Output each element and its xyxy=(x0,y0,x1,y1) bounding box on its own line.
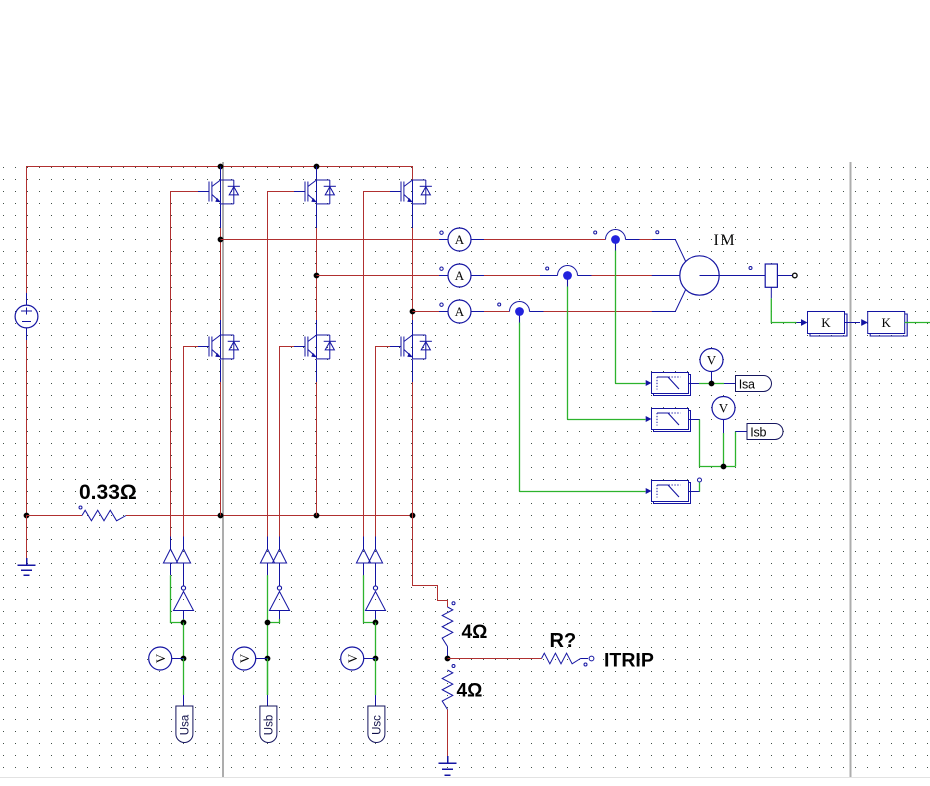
wire: phase c current signal xyxy=(519,323,521,492)
wire: phase b leg midpoint xyxy=(316,228,318,320)
svg-text:4Ω: 4Ω xyxy=(457,681,483,702)
wire: phase a to ammeter xyxy=(221,239,440,241)
wire: buffer input to chain xyxy=(171,575,184,622)
svg-text:Usa: Usa xyxy=(180,714,192,735)
wire: leg b to -bus xyxy=(316,382,318,516)
node: -bus corner xyxy=(24,513,30,519)
net label Isa xyxy=(736,376,772,392)
wire: leg c to -bus xyxy=(412,382,414,516)
wire: probe stub xyxy=(626,239,640,241)
svg-text:0.33Ω: 0.33Ω xyxy=(79,481,137,504)
node: divider tap xyxy=(445,656,451,662)
wire: arrow lead xyxy=(797,322,802,324)
inverter bubble xyxy=(373,586,377,590)
wire: ammeter A2 to probe xyxy=(484,275,540,277)
wire: buffer output stub xyxy=(170,537,172,550)
wire: positive DC rail xyxy=(27,167,413,294)
wire: gate drive 4 xyxy=(280,347,294,537)
svg-text:Usb: Usb xyxy=(264,715,276,735)
node: -bus / leg A emitter xyxy=(218,513,224,519)
node: source tap xyxy=(373,656,379,662)
node: +bus / leg B collector xyxy=(314,164,320,170)
wire: NOT input to chain xyxy=(268,619,280,623)
wire: NOT input xyxy=(375,619,377,623)
ammeter A1 xyxy=(439,228,484,251)
wire: into Isb tag xyxy=(736,431,748,433)
wire: -bus segment xyxy=(27,515,83,517)
wire: Q2 collector lead xyxy=(220,320,222,336)
wire: NOT input stub xyxy=(279,611,281,620)
gate buffer U6 (inverting pair top) xyxy=(368,549,382,563)
page boundary line (vertical right) xyxy=(850,162,852,777)
terminal of R1 xyxy=(79,506,82,509)
current probe node a (hop arc + blue dot) xyxy=(606,230,626,251)
wire: negative DC rail xyxy=(126,515,413,517)
svg-text:Isa: Isa xyxy=(739,377,755,391)
wire: buffer output stub xyxy=(267,537,269,550)
wire: FLT3 output stub xyxy=(689,491,700,493)
motor terminal a marker xyxy=(656,231,659,234)
wire: speed signal xyxy=(771,298,796,322)
wire: to source tag xyxy=(375,659,377,696)
node: -bus / leg B emitter xyxy=(314,513,320,519)
wire: R3 to ground xyxy=(447,710,449,758)
gate buffer U2 (inverting pair top) xyxy=(176,549,190,563)
wire: Q4 collector lead xyxy=(316,320,318,336)
wire: VM2 to Isb net xyxy=(723,433,725,467)
svg-text:V: V xyxy=(345,653,360,663)
wire: FLT3 open output xyxy=(699,483,701,492)
wire: Q5 emitter lead xyxy=(412,204,414,228)
voltmeter VMg3 xyxy=(341,647,376,670)
voltmeter VM2 xyxy=(712,397,735,434)
source tag Usb xyxy=(260,706,277,743)
node: +bus / leg A collector xyxy=(218,164,224,170)
wire: into filter FLT3 xyxy=(520,491,646,493)
transistor Q6 (IGBT with antiparallel diode) xyxy=(390,335,432,359)
wire: probe stub xyxy=(530,311,544,313)
induction motor IM xyxy=(652,240,756,312)
wire: ammeter A1 to probe xyxy=(484,239,606,241)
wire: Q2 emitter lead xyxy=(220,359,222,382)
wire: into Isa tag xyxy=(724,383,736,385)
wire: -bus to divider xyxy=(413,516,448,608)
svg-text:K: K xyxy=(882,315,892,330)
wire: NOT output stub xyxy=(279,563,281,586)
wire: K1 to K2 xyxy=(845,322,861,324)
resistor R4 R? xyxy=(542,653,581,664)
svg-text:R?: R? xyxy=(550,630,577,652)
terminal marker at probe xyxy=(546,267,549,270)
svg-text:V: V xyxy=(237,653,252,663)
wire: gate drive 2 xyxy=(184,347,198,537)
wire: tap to Rtrip xyxy=(448,658,542,660)
inverter bubble xyxy=(181,586,185,590)
gate buffer U4 (inverting pair top) xyxy=(272,549,286,563)
arrowhead into K2 xyxy=(862,320,868,326)
node: phase c output xyxy=(410,309,416,315)
wire: buffer input stub xyxy=(170,563,172,575)
page boundary line (vertical left) xyxy=(222,162,224,777)
wire: tag stub xyxy=(183,695,185,706)
wire: gate drive 1 xyxy=(171,192,198,537)
wire: phase c leg midpoint xyxy=(412,228,414,320)
low-pass filter block FLT2 xyxy=(646,409,691,432)
node: phase a output xyxy=(218,237,224,243)
wire: Isb net rise xyxy=(735,432,737,467)
wire: NOT input stub xyxy=(375,611,377,620)
terminal of R2 xyxy=(452,602,455,605)
resistor R3 4ohm xyxy=(442,670,453,710)
source tag Usc xyxy=(368,706,385,743)
open terminal ITRIP xyxy=(589,656,594,661)
node: source tap xyxy=(181,656,187,662)
page boundary line (bottom) xyxy=(0,777,930,779)
wire: probe to motor terminal c xyxy=(544,311,652,313)
wire: leg a collector lead xyxy=(220,167,222,181)
wire: phase c to ammeter xyxy=(413,311,440,313)
terminal marker at probe xyxy=(594,231,597,234)
node: gate signal xyxy=(373,620,379,626)
terminal of R4 xyxy=(584,663,587,666)
wire: buffer output stub xyxy=(279,537,281,550)
node: phase b output xyxy=(314,273,320,279)
net label Isb xyxy=(747,424,783,440)
wire: buffer input chain xyxy=(267,575,269,695)
svg-text:Usc: Usc xyxy=(372,715,384,735)
logic inverter N1 xyxy=(174,592,194,611)
svg-text:A: A xyxy=(455,268,465,283)
gain block K1 xyxy=(801,312,847,337)
wire: Q6 collector lead xyxy=(412,320,414,336)
svg-text:Isb: Isb xyxy=(750,425,766,439)
wire: Q1 emitter lead xyxy=(220,204,222,228)
transistor Q4 (IGBT with antiparallel diode) xyxy=(294,335,336,359)
voltmeter VMg2 xyxy=(233,647,268,670)
resistor R1 0.33ohm xyxy=(82,510,126,521)
wire: buffer input stub xyxy=(267,563,269,575)
wire: gate drive 5 xyxy=(364,192,390,537)
wire: probe lead-in xyxy=(540,275,558,277)
wire: into filter FLT2 xyxy=(568,419,646,421)
inverter bubble xyxy=(277,586,281,590)
ammeter A2 xyxy=(439,264,484,287)
wire: Isa net xyxy=(699,383,724,385)
svg-text:A: A xyxy=(455,304,465,319)
wire: buffer input stub xyxy=(363,563,365,575)
gate buffer U1 xyxy=(163,549,177,563)
wire: buffer output stub xyxy=(183,537,185,550)
wire: R2 to tap xyxy=(447,647,449,659)
open terminal FLT3 xyxy=(698,478,702,482)
wire: chain down xyxy=(183,623,185,659)
wire: phase a leg midpoint xyxy=(220,228,222,320)
wire: source negative to bottom rail xyxy=(26,340,28,516)
svg-text:K: K xyxy=(821,315,831,330)
wire: into filter FLT1 xyxy=(616,383,646,385)
node: source tap xyxy=(265,656,271,662)
wire: Q4 emitter lead xyxy=(316,359,318,382)
wire: NOT input stub xyxy=(183,611,185,620)
wire: Q3 emitter lead xyxy=(316,204,318,228)
wire: phase b current signal xyxy=(567,287,569,420)
dc voltage source V1 xyxy=(15,293,38,340)
gate buffer U5 xyxy=(356,549,370,563)
node: gate signal xyxy=(265,620,271,626)
logic inverter N3 xyxy=(366,592,386,611)
low-pass filter block FLT3 xyxy=(646,481,691,504)
svg-text:V: V xyxy=(153,653,168,663)
wire: probe to motor terminal b xyxy=(592,275,652,277)
wire: NOT input xyxy=(183,619,185,623)
gain block K2 xyxy=(861,312,907,337)
node: -bus / divider tap xyxy=(410,513,416,519)
wire: Isb net run xyxy=(700,420,736,467)
open output terminal xyxy=(793,273,798,278)
ammeter A3 xyxy=(439,300,484,323)
wire: chain down xyxy=(375,623,377,659)
source tag Usa xyxy=(176,706,193,743)
current probe node c (hop arc + blue dot) xyxy=(510,302,530,323)
wire: tag stub xyxy=(267,695,269,706)
node: Isb xyxy=(721,464,727,470)
terminal of R3 xyxy=(452,665,455,668)
ground G2 xyxy=(439,756,457,775)
svg-text:4Ω: 4Ω xyxy=(462,622,488,643)
voltmeter VM1 xyxy=(700,349,723,384)
terminal marker at probe xyxy=(498,303,501,306)
ground G1 xyxy=(18,558,36,575)
wire: Q6 emitter lead xyxy=(412,359,414,382)
wire: NOT output stub xyxy=(375,563,377,586)
shaft terminal marker xyxy=(749,267,752,270)
wire: phase b to ammeter xyxy=(317,275,440,277)
transistor Q1 (IGBT with antiparallel diode) xyxy=(198,180,240,204)
wire: buffer output stub xyxy=(363,537,365,550)
wire: leg a to -bus xyxy=(220,382,222,516)
wire: to ground xyxy=(26,516,28,559)
wire: NOT output stub xyxy=(183,563,185,586)
svg-text:A: A xyxy=(455,232,465,247)
wire: phase a current signal xyxy=(615,251,617,384)
wire: probe to motor terminal a xyxy=(640,239,653,241)
wire: speed output xyxy=(905,322,930,324)
wire: tag stub xyxy=(375,695,377,706)
voltmeter VMg1 xyxy=(149,647,184,670)
transistor Q3 (IGBT with antiparallel diode) xyxy=(294,180,336,204)
wire: to source tag xyxy=(183,659,185,696)
wire: ammeter A3 to probe xyxy=(484,311,510,313)
transistor Q2 (IGBT with antiparallel diode) xyxy=(198,335,240,359)
svg-text:V: V xyxy=(719,401,729,416)
wire: leg b collector lead xyxy=(316,167,318,181)
dotted grid background xyxy=(0,162,930,772)
svg-text:V: V xyxy=(707,353,717,368)
svg-text:ITRIP: ITRIP xyxy=(604,650,654,672)
node: Isa xyxy=(709,381,715,387)
wire: Rtrip output stub xyxy=(581,658,589,660)
low-pass filter block FLT1 xyxy=(646,373,691,396)
svg-text:IM: IM xyxy=(714,232,737,249)
current probe node b (hop arc + blue dot) xyxy=(558,266,578,287)
wire: FLT1 output stub xyxy=(689,383,700,385)
wire: buffer output stub xyxy=(375,537,377,550)
wire: gate drive 3 xyxy=(268,192,294,537)
wire: to source tag xyxy=(267,659,269,696)
wire: probe stub xyxy=(578,275,592,277)
mechanical load / speed sensor block xyxy=(756,264,792,298)
wire: buffer input to chain xyxy=(364,575,376,622)
gate buffer U3 xyxy=(260,549,274,563)
transistor Q5 (IGBT with antiparallel diode) xyxy=(390,180,432,204)
wire: FLT2 output stub xyxy=(689,419,700,421)
logic inverter N2 xyxy=(270,592,290,611)
wire: gate drive 6 xyxy=(376,347,390,537)
resistor R2 4ohm xyxy=(442,607,453,647)
node: gate signal xyxy=(181,620,187,626)
